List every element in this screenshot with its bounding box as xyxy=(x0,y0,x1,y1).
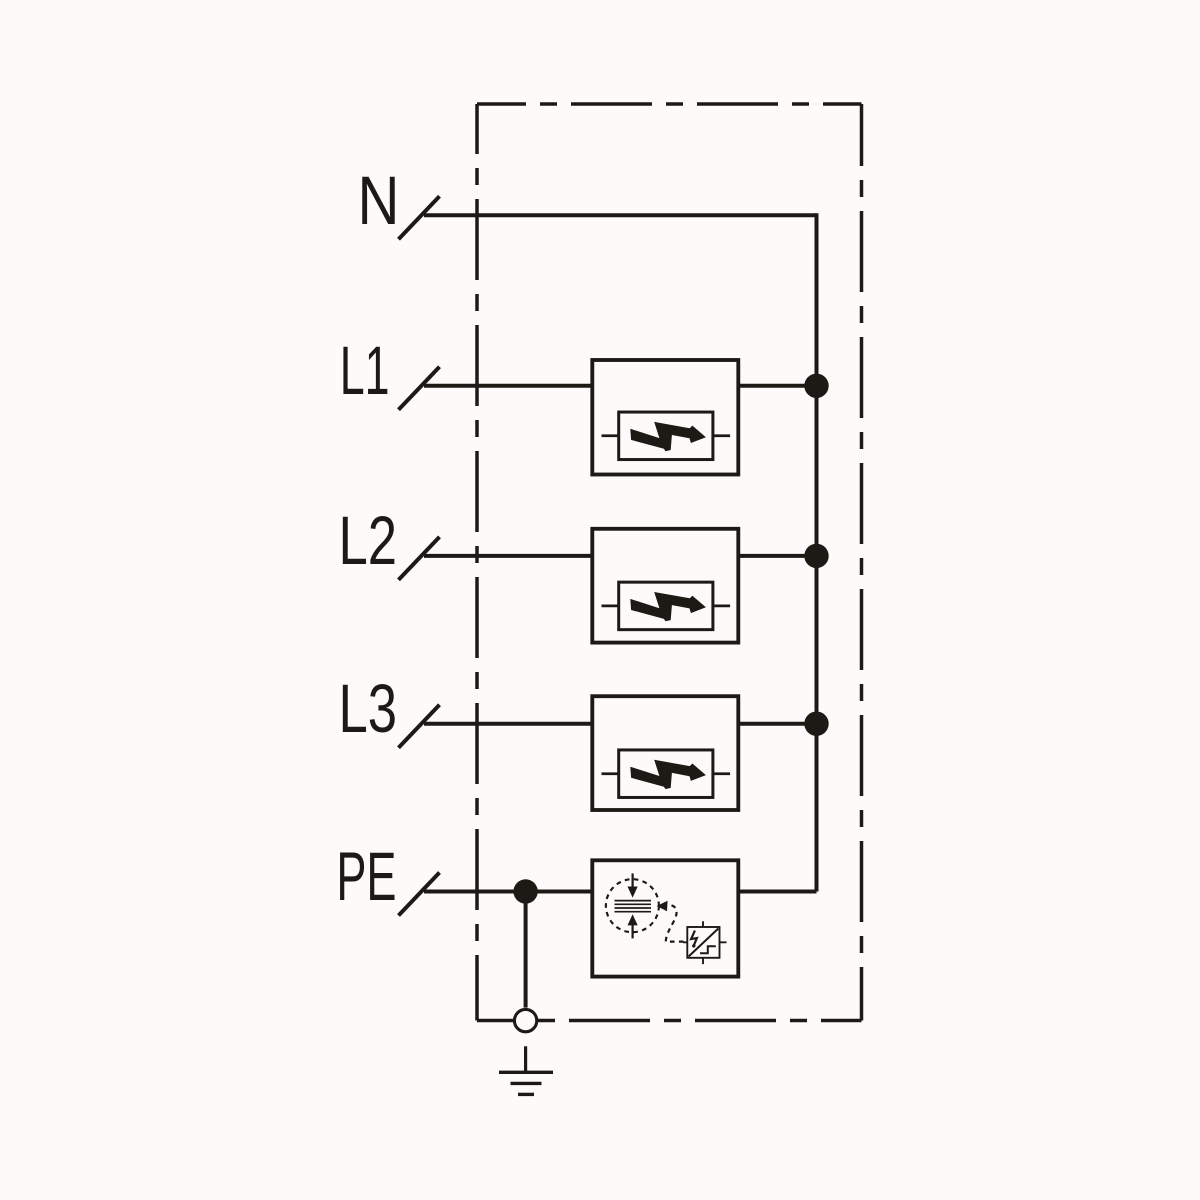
trigger box step glyph xyxy=(700,946,716,953)
svg-text:L2: L2 xyxy=(338,502,397,580)
surge arrester symbol L1 xyxy=(602,412,731,460)
terminal slash N xyxy=(399,196,440,239)
enclosure dash-dot border top xyxy=(477,102,862,106)
junction node L2-bus xyxy=(804,544,828,568)
junction node PE drop xyxy=(513,879,537,903)
ground bar 2 xyxy=(511,1082,542,1085)
SPD module box L3 (spark gap F3) xyxy=(592,696,738,810)
wire L1 right xyxy=(738,384,816,388)
wire PE right xyxy=(738,890,816,894)
wire L3 left xyxy=(424,722,592,726)
wire PE vertical drop to earth terminal xyxy=(524,892,528,1008)
wire L1 left xyxy=(424,384,592,388)
terminal slash L3 xyxy=(399,705,440,748)
N-PE spark gap: electrode stack xyxy=(615,901,652,912)
wire L2 left xyxy=(424,554,592,558)
svg-text:L1: L1 xyxy=(340,332,390,409)
terminal slash PE xyxy=(399,873,440,916)
svg-text:L3: L3 xyxy=(338,670,397,748)
trigger arrow toward spark gap xyxy=(657,901,668,912)
SPD module box L1 (spark gap F1) xyxy=(592,360,738,475)
surge arrester symbol L3 xyxy=(602,750,731,798)
terminal slash L2 xyxy=(399,537,440,580)
junction node L3-bus xyxy=(804,712,828,736)
enclosure dash-dot border left xyxy=(475,104,479,1021)
trigger box lightning glyph xyxy=(691,931,697,947)
wire N horizontal xyxy=(424,213,817,217)
wire L2 right xyxy=(738,554,816,558)
trigger dashed link xyxy=(666,905,685,941)
earth terminal circle xyxy=(514,1009,536,1031)
trigger circuit box U1 xyxy=(687,927,719,958)
SPD module box N-PE (spark gap F4) xyxy=(592,860,738,976)
svg-text:PE: PE xyxy=(336,839,396,916)
ground bar 1 xyxy=(499,1071,553,1074)
N-PE spark gap: dashed electrode circle xyxy=(606,879,659,932)
SPD module box L2 (spark gap F2) xyxy=(592,529,738,643)
svg-text:N: N xyxy=(358,161,400,239)
terminal slash L1 xyxy=(399,367,440,410)
junction node L1-bus xyxy=(804,374,828,398)
enclosure dash-dot border right xyxy=(860,104,864,1021)
surge arrester symbol L2 xyxy=(602,582,731,630)
wire N/bus vertical (right collector bus) xyxy=(815,213,819,891)
wire L3 right xyxy=(738,722,816,726)
ground bar 3 xyxy=(518,1093,534,1096)
wire PE left xyxy=(424,890,592,894)
N-PE spark gap: top arrow xyxy=(631,873,633,887)
ground stem xyxy=(524,1046,527,1072)
enclosure dash-dot border bottom xyxy=(477,1019,862,1023)
N-PE spark gap: bottom arrow xyxy=(631,925,633,938)
